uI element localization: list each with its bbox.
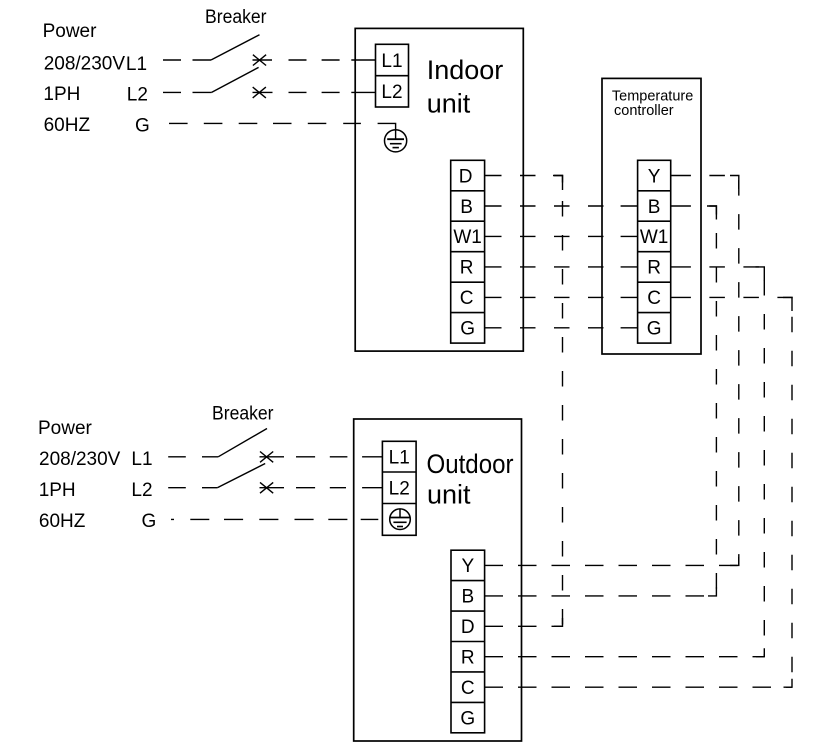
wire indoor R to controller R (dashed) [502,266,621,268]
wire stub controller R right [671,266,691,268]
wire stub outdoor D [485,625,503,627]
svg-text:Indoor: Indoor [427,55,504,85]
svg-text:L1: L1 [126,54,147,75]
breaker CB2 pole L1 contact X [260,452,273,463]
svg-text:Power: Power [43,21,98,42]
wire stub indoor G [485,327,502,329]
breaker CB1 pole L1 contact X [253,55,266,66]
terminal strip outdoor Y B D R C G [451,550,485,733]
svg-text:controller: controller [614,103,674,119]
terminal block indoor L1/L2 [376,44,409,107]
wire L1 top after contact [253,59,273,61]
wire stub indoor W1 [485,235,502,237]
svg-text:Power: Power [38,418,93,439]
wire stub controller Y right [671,175,691,177]
indoor unit box [355,28,523,351]
svg-text:208/230V: 208/230V [44,54,126,75]
wire stub indoor R [485,266,502,268]
svg-text:1PH: 1PH [39,480,76,501]
wire stub controller R left [621,266,638,268]
svg-text:Y: Y [461,556,474,577]
outdoor unit box [354,419,522,741]
svg-text:60HZ: 60HZ [44,115,91,136]
wire L2 bottom into breaker [202,487,217,489]
wire stub controller B left [621,205,638,207]
svg-text:B: B [648,197,661,218]
wire G top jog to ground symbol [378,123,396,139]
wire controller R to outdoor R (dashed, down at x=764.3) [691,267,764,657]
wire L2 top lead dash [163,91,181,93]
wire L2 top after contact [253,91,273,93]
wire stub outdoor C [485,686,503,688]
wire indoor B to controller B (dashed) [502,205,621,207]
wire G bottom dashed run [171,518,378,520]
wire stub controller W1 left [621,235,638,237]
svg-text:R: R [461,648,475,669]
svg-text:G: G [142,511,157,532]
wire stub controller B right [671,205,691,207]
wire indoor D to outdoor D (dashed, down at x=562.5) [502,176,563,627]
wire stub outdoor B [485,595,503,597]
wire L1 bottom after contact [260,456,285,458]
svg-text:L2: L2 [131,480,152,501]
wire controller Y to outdoor Y (dashed, down at x=738.8) [691,176,739,566]
svg-text:W1: W1 [640,227,669,248]
wire L1 bottom into breaker [202,456,218,458]
wire L1 bottom dashes to outdoor unit [296,456,347,458]
svg-text:Outdoor: Outdoor [427,449,514,479]
wire stub indoor D [485,175,502,177]
svg-text:G: G [460,319,475,340]
wire stub indoor B [485,205,502,207]
wire stub controller C right [671,296,691,298]
wire L2 top into breaker [193,91,212,93]
wire controller C to outdoor C (dashed, down at x=792) [691,297,792,687]
wire L2 bottom after contact [260,487,285,489]
svg-text:B: B [460,197,473,218]
svg-text:L2: L2 [127,84,148,105]
svg-text:Breaker: Breaker [205,7,267,28]
svg-text:L1: L1 [389,447,410,468]
wire L2 bottom dashes to outdoor unit [296,487,346,489]
svg-text:G: G [135,115,150,136]
svg-text:L2: L2 [381,82,402,103]
wire L1 bottom lead dash [168,456,186,458]
wire L2 top dashes to indoor unit [289,91,340,93]
svg-text:Temperature: Temperature [612,88,693,104]
svg-text:C: C [460,288,474,309]
wire L1 top dashes to indoor unit [289,59,340,61]
temperature controller box [602,78,701,354]
breaker CB2 pole L1 blade [218,429,267,457]
breaker CB1 pole L2 contact X [253,87,266,98]
wire stub controller G left [621,327,638,329]
ground symbol indoor unit [385,130,407,152]
wire G top dashed run [169,122,361,124]
svg-text:Y: Y [648,166,661,187]
breaker CB2 pole L2 blade [217,464,265,488]
svg-text:1PH: 1PH [43,84,80,105]
breaker CB1 pole L1 blade [211,35,260,60]
breaker CB1 pole L2 blade [212,67,259,92]
svg-text:60HZ: 60HZ [39,511,86,532]
svg-text:W1: W1 [453,227,482,248]
wire stub indoor C [485,296,502,298]
wire L1 top lead dash [163,59,181,61]
wire indoor C to controller C (dashed) [502,296,621,298]
svg-text:C: C [647,288,661,309]
terminal strip indoor D B W1 R C G [451,160,485,343]
svg-text:unit: unit [427,479,471,509]
svg-text:unit: unit [427,88,471,118]
breaker CB2 pole L2 contact X [260,482,273,493]
svg-text:L1: L1 [381,51,402,72]
svg-text:208/230V: 208/230V [39,449,121,470]
terminal strip controller Y B W1 R C G [638,160,671,343]
svg-text:R: R [647,258,661,279]
wire L1 top into indoor terminal L1 [351,59,375,61]
svg-text:D: D [461,617,475,638]
svg-text:B: B [461,587,474,608]
wire stub controller C left [621,296,638,298]
svg-text:G: G [460,708,475,729]
svg-text:Breaker: Breaker [212,403,274,424]
wire L2 bottom lead dash [168,487,186,489]
wire indoor W1 to controller W1 (dashed) [502,235,621,237]
svg-text:C: C [461,678,475,699]
svg-text:L2: L2 [389,479,410,500]
wire controller B to outdoor B (dashed, down at x=716.4) [691,206,717,596]
wire L1 top into breaker [193,59,212,61]
ground symbol outdoor unit [390,509,411,530]
wire stub outdoor R [485,656,503,658]
svg-text:L1: L1 [131,449,152,470]
wire L2 bottom into outdoor terminal L2 [362,487,382,489]
svg-text:R: R [460,258,474,279]
wire L2 top into indoor terminal L2 [351,91,375,93]
wire stub outdoor Y [485,564,503,566]
terminal block outdoor L1/L2/G [382,441,416,535]
svg-text:D: D [459,166,473,187]
svg-text:G: G [647,319,662,340]
wire indoor G to controller G (dashed) [502,327,621,329]
wire L1 bottom into outdoor terminal L1 [362,456,382,458]
